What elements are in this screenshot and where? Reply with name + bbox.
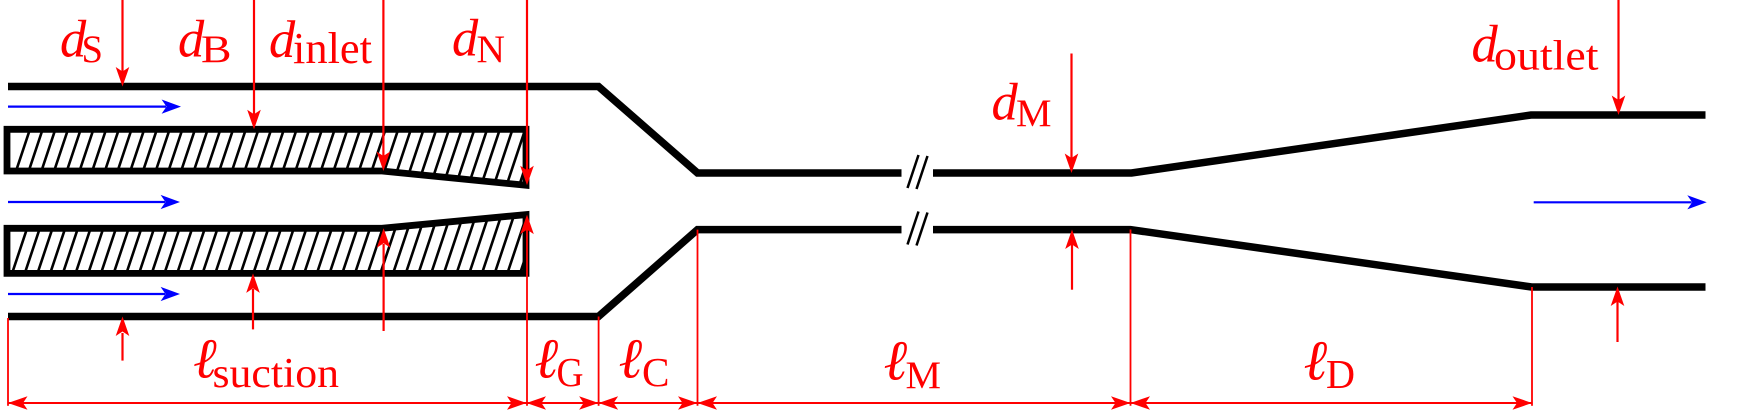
flow arrow: suction lower [8, 287, 180, 301]
at x=598.6 pair [579, 396, 599, 410]
flow arrow: suction upper [8, 100, 181, 114]
dimension d_outlet down arrow [1612, 0, 1626, 115]
break mark on top wall [908, 155, 928, 189]
break mark on bottom wall [908, 212, 928, 246]
svg-text:inlet: inlet [293, 24, 372, 73]
svg-text:ℓ: ℓ [1304, 330, 1328, 393]
dimension d_B down arrow [247, 0, 261, 129]
svg-text:M: M [906, 354, 942, 397]
dimension d_N up arrow + extension line to dimension baseline [520, 215, 534, 406]
extension line at x=598.6 (end of suction pipe) [598, 317, 600, 406]
svg-text:M: M [1016, 92, 1052, 135]
svg-text:ℓ: ℓ [535, 328, 559, 391]
svg-text:ℓ: ℓ [619, 328, 643, 391]
svg-text:d: d [992, 74, 1019, 132]
label l_G [535, 328, 584, 396]
dimension d_N down arrow [520, 0, 534, 185]
at x=526.5 pair [507, 396, 527, 410]
nozzle lower wall (hatched block 2) [7, 205, 556, 290]
extension line at x=8 (left datum) [7, 318, 9, 406]
wire: bottom outer wall left of break [8, 230, 902, 317]
label d_M [992, 74, 1052, 136]
dimension d_outlet up arrow [1611, 287, 1625, 343]
label l_suction [193, 328, 339, 398]
extension line at x=697.5 (start of mixing tube) [697, 230, 699, 406]
flow arrow: primary center [8, 195, 180, 209]
label d_S [60, 11, 103, 72]
left end, pointing left [8, 396, 28, 410]
at x=697.5 pair [678, 396, 698, 410]
label d_B [178, 11, 232, 72]
label l_C [619, 328, 670, 396]
dimension d_inlet up arrow [377, 228, 391, 331]
extension line at x=1532 (end of diffuser) [1531, 287, 1533, 406]
dimension d_S up arrow [116, 317, 130, 361]
label l_D [1304, 330, 1356, 398]
svg-text:ℓ: ℓ [884, 329, 908, 392]
nozzle upper wall (hatched block 1) [6, 120, 553, 200]
svg-text:d: d [452, 10, 479, 68]
svg-text:suction: suction [213, 351, 340, 397]
dimension d_M up arrow [1065, 230, 1079, 290]
svg-text:S: S [82, 28, 104, 71]
flow arrow: outlet [1534, 195, 1707, 209]
svg-text:outlet: outlet [1494, 34, 1599, 80]
svg-text:G: G [557, 349, 584, 395]
wire: bottom mixing tube wall right of break + diffuser + outlet [933, 230, 1706, 287]
svg-text:C: C [642, 349, 670, 395]
label d_N [452, 10, 505, 71]
svg-text:N: N [477, 28, 506, 71]
label l_M [884, 329, 942, 397]
dimension d_B up arrow [246, 273, 260, 329]
at x=1130.5 pair [1111, 396, 1131, 410]
label d_outlet [1472, 16, 1599, 80]
svg-text:D: D [1326, 351, 1355, 397]
dimension baseline [8, 402, 1532, 404]
extension line at x=1130.5 (end of mixing tube) [1130, 230, 1132, 406]
dimension d_inlet down arrow [377, 0, 391, 171]
dimension d_S down arrow [116, 0, 130, 87]
svg-text:B: B [201, 28, 232, 71]
svg-text:d: d [269, 11, 296, 69]
right end, pointing right [1513, 396, 1533, 410]
label d_inlet [269, 11, 372, 73]
dimension d_M down arrow [1065, 54, 1079, 174]
wire: top outer wall (suction inlet to converging section to mixing tube, left of break) [8, 87, 902, 174]
wire: top mixing tube wall right of break + diffuser + outlet [933, 115, 1706, 173]
dimension baseline arrowheads [8, 396, 1532, 410]
